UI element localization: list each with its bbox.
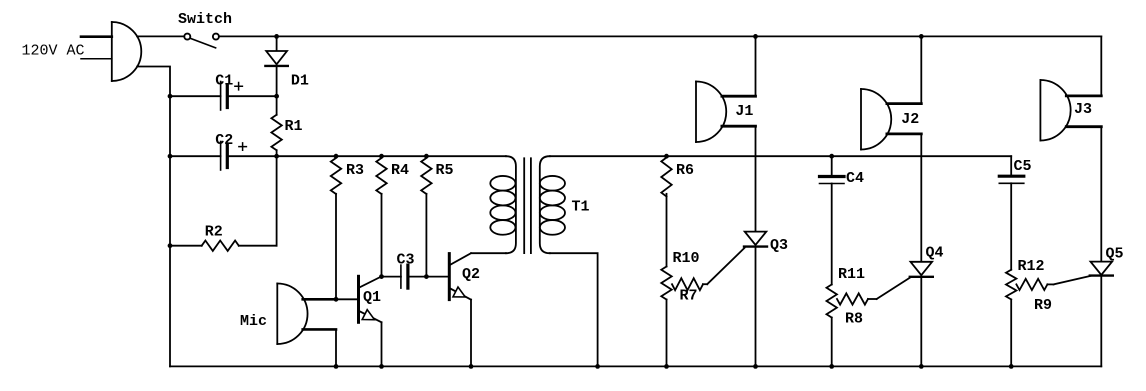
svg-text:R2: R2 <box>205 223 223 240</box>
resistor R2 <box>170 241 277 251</box>
svg-text:Switch: Switch <box>178 11 232 28</box>
capacitor C5 <box>999 156 1024 270</box>
junction top rail / J1 <box>753 34 758 39</box>
resistor R1 <box>271 96 281 156</box>
svg-text:J1: J1 <box>735 103 753 120</box>
wire second rail left of C2 <box>170 155 221 157</box>
junction left rail / C1 row <box>168 94 173 99</box>
junction bottom rail / Q1 emitter <box>379 364 384 369</box>
capacitor C2 <box>221 142 247 171</box>
transistor Q2 <box>449 253 471 299</box>
wire top rail corner to J3 <box>1100 36 1102 96</box>
junction second rail / R5 <box>424 154 429 159</box>
wire secondary top / second rail right <box>550 155 1011 157</box>
junction bottom rail / R10 <box>664 364 669 369</box>
svg-text:R4: R4 <box>391 162 409 179</box>
svg-text:Q3: Q3 <box>770 237 788 254</box>
wire plug to switch (top rail left) <box>137 35 185 37</box>
wire J1 to Q3 anode <box>755 126 757 231</box>
microphone Mic <box>277 284 336 367</box>
junction second rail / R6 <box>664 154 669 159</box>
resistor R11 <box>827 285 837 367</box>
svg-text:R10: R10 <box>673 250 700 267</box>
wire C1 row left <box>170 95 221 97</box>
svg-text:Q5: Q5 <box>1106 246 1124 263</box>
resistor R8 <box>837 293 877 304</box>
junction bottom rail / Q3 cathode <box>753 364 758 369</box>
wire Q4 gate <box>877 278 910 299</box>
wire Q5 gate <box>1054 276 1091 284</box>
wire Q1 base <box>336 298 357 300</box>
SCR Q3 <box>744 232 767 367</box>
speaker jack J1 <box>696 82 756 143</box>
svg-text:C3: C3 <box>397 252 415 269</box>
svg-text:C4: C4 <box>846 170 864 187</box>
junction R3 / mic / Q1 base <box>334 297 339 302</box>
svg-text:R1: R1 <box>285 118 303 135</box>
svg-text:C2: C2 <box>215 132 233 149</box>
wire top rail to J1 <box>755 36 757 96</box>
SCR Q5 <box>1090 262 1113 367</box>
resistor R6 <box>661 158 671 267</box>
svg-text:Q2: Q2 <box>462 266 480 283</box>
wire top rail <box>219 35 1101 37</box>
junction bottom rail / R11 <box>829 364 834 369</box>
svg-text:J2: J2 <box>901 111 919 128</box>
resistor R9 <box>1016 279 1053 290</box>
svg-text:R3: R3 <box>346 162 364 179</box>
diode D1 <box>265 36 287 96</box>
junction bottom rail / Q4 cathode <box>919 364 924 369</box>
svg-text:R12: R12 <box>1018 258 1045 275</box>
wire Q2 base <box>426 276 448 278</box>
wire Q2 emitter down <box>470 300 472 367</box>
wire J3 to Q5 anode <box>1100 127 1102 262</box>
wire Q3 gate <box>707 248 744 284</box>
junction R1 bottom / second rail <box>274 154 279 159</box>
junction bottom rail / Q2 emitter <box>469 364 474 369</box>
junction top rail / D1 <box>274 34 279 39</box>
junction second rail / C4 <box>829 154 834 159</box>
wire C3 right <box>408 276 427 278</box>
junction bottom rail / T1 secondary <box>595 364 600 369</box>
capacitor C1 <box>221 82 243 111</box>
svg-text:R7: R7 <box>680 288 698 305</box>
svg-text:R6: R6 <box>676 162 694 179</box>
AC plug <box>81 22 141 81</box>
junction bottom rail / mic <box>334 364 339 369</box>
wire secondary bottom down <box>550 253 598 366</box>
junction bottom rail / R12 <box>1009 364 1014 369</box>
svg-text:T1: T1 <box>572 199 590 216</box>
wire Q1 emitter down <box>381 322 383 366</box>
wire R1/R2 vertical <box>276 156 278 246</box>
resistor R12 <box>1006 270 1016 367</box>
junction C1/D1/R1 <box>274 94 279 99</box>
wire bottom rail <box>170 365 1101 367</box>
transformer T1 primary <box>490 156 516 253</box>
svg-text:J3: J3 <box>1074 101 1092 118</box>
svg-text:R8: R8 <box>845 311 863 328</box>
svg-text:D1: D1 <box>291 73 309 90</box>
wire C3 left <box>382 276 401 278</box>
svg-text:C1: C1 <box>215 73 233 90</box>
transistor Q1 <box>359 276 382 322</box>
junction R4 / Q1 collector / C3 <box>379 274 384 279</box>
wire C1 row right <box>227 95 276 97</box>
resistor R5 <box>421 158 431 277</box>
capacitor C4 <box>820 156 845 284</box>
wire J2 to Q4 anode <box>920 134 922 262</box>
wire Q2 collector to transformer <box>471 252 506 254</box>
svg-text:R11: R11 <box>838 266 865 283</box>
switch <box>184 34 219 48</box>
svg-text:R5: R5 <box>436 162 454 179</box>
svg-text:Q1: Q1 <box>363 289 381 306</box>
resistor R3 <box>331 158 341 299</box>
junction second rail / R3 <box>334 154 339 159</box>
svg-text:Mic: Mic <box>240 313 267 330</box>
junction left rail / R2 <box>168 243 173 248</box>
SCR Q4 <box>910 262 933 367</box>
speaker jack J3 <box>1040 80 1101 141</box>
capacitor C3 <box>401 265 408 288</box>
svg-text:Q4: Q4 <box>926 245 944 262</box>
junction second rail / R4 <box>379 154 384 159</box>
junction R5 / C3 / Q2 base <box>424 274 429 279</box>
resistor R10 <box>661 267 671 367</box>
wire top rail to J2 <box>920 36 922 103</box>
svg-text:C5: C5 <box>1014 158 1032 175</box>
junction left rail / second rail <box>168 154 173 159</box>
transformer T1 core <box>524 158 531 253</box>
svg-text:R9: R9 <box>1034 297 1052 314</box>
wire second rail C2 to transformer <box>227 155 506 157</box>
transformer T1 secondary <box>540 156 565 253</box>
speaker jack J2 <box>861 89 921 150</box>
wire plug lower to left rail vertical <box>137 67 170 367</box>
resistor R4 <box>376 158 386 277</box>
resistor R7 <box>672 278 707 290</box>
junction top rail / J2 <box>919 34 924 39</box>
svg-text:120V AC: 120V AC <box>22 42 85 59</box>
